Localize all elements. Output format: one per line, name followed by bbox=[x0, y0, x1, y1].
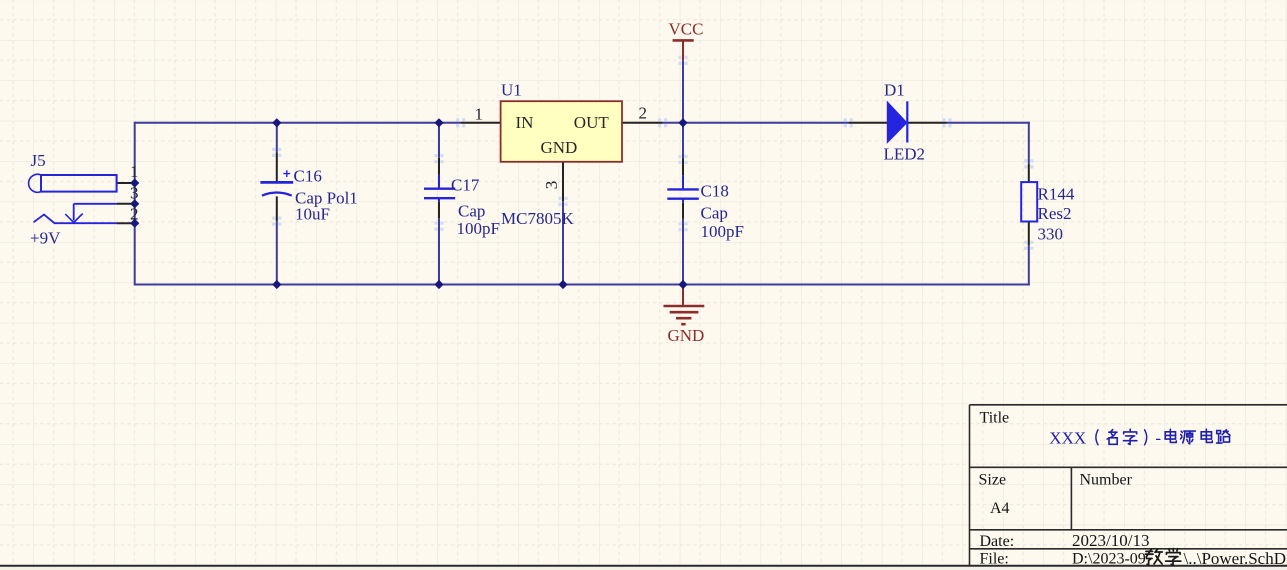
pin bottom of C17 bbox=[438, 198, 440, 202]
svg-text:A4: A4 bbox=[990, 500, 1010, 517]
wire top net to C16 bbox=[276, 123, 278, 153]
svg-text:XXX: XXX bbox=[1049, 429, 1086, 448]
svg-text:1: 1 bbox=[475, 105, 484, 124]
resistor R144 body bbox=[1021, 182, 1037, 221]
wire D1 to right corner bbox=[947, 122, 1030, 124]
diode D1 LED bbox=[887, 101, 907, 142]
svg-text:C18: C18 bbox=[701, 182, 729, 201]
svg-text:C17: C17 bbox=[451, 176, 480, 195]
svg-text:MC7805K: MC7805K bbox=[501, 209, 574, 228]
junction J5 pin1 bbox=[130, 178, 139, 187]
wire right vertical to R144 bbox=[1028, 122, 1030, 164]
wire R144 to bottom net bbox=[1028, 245, 1030, 285]
svg-text:3: 3 bbox=[542, 181, 561, 190]
junction U1 pin3 bottom bbox=[558, 280, 567, 289]
svg-text:OUT: OUT bbox=[574, 113, 610, 132]
svg-text:C16: C16 bbox=[294, 167, 322, 186]
pin bottom of R144 bbox=[1028, 222, 1030, 246]
svg-text:LED2: LED2 bbox=[884, 145, 926, 164]
pin 1 of J5 bbox=[117, 182, 135, 184]
power symbol VCC bbox=[673, 40, 694, 60]
ground symbol GND bbox=[664, 285, 705, 325]
wire node to C18 top bbox=[682, 123, 684, 159]
svg-text:GND: GND bbox=[541, 138, 578, 157]
junction J5 pin2 bbox=[130, 219, 139, 228]
title text XXX (name) power circuit bbox=[1049, 429, 1230, 448]
sheet bottom border bbox=[0, 567, 1287, 570]
svg-text:2: 2 bbox=[639, 104, 648, 123]
svg-text:Res2: Res2 bbox=[1038, 204, 1072, 223]
svg-text:Number: Number bbox=[1080, 472, 1133, 489]
pin bottom of C16 bbox=[276, 196, 278, 221]
svg-text:Cap: Cap bbox=[701, 204, 728, 223]
pin 1 of U1 bbox=[461, 122, 501, 124]
svg-text:Size: Size bbox=[979, 472, 1007, 489]
wire C17 bottom to ground net bbox=[438, 218, 440, 284]
svg-text:R144: R144 bbox=[1038, 185, 1075, 204]
svg-text:100pF: 100pF bbox=[701, 222, 744, 241]
title block value file path bbox=[1072, 549, 1286, 568]
pin cathode of D1 bbox=[907, 122, 947, 124]
wire J5 bus vertical bbox=[134, 122, 136, 286]
svg-text:J5: J5 bbox=[31, 151, 46, 170]
wire top net from J5 to U1 pin1 bbox=[135, 122, 461, 124]
svg-text:Date:: Date: bbox=[980, 533, 1015, 550]
junction C17 bottom bbox=[434, 280, 443, 289]
junction C16 bottom bbox=[272, 280, 281, 289]
pin 2 of J5 bbox=[117, 222, 135, 224]
connector J5 barrel body bbox=[29, 174, 117, 192]
wire bottom ground net bbox=[135, 284, 1030, 286]
capacitor C16 plates bbox=[260, 170, 293, 195]
svg-text:1: 1 bbox=[130, 162, 139, 181]
svg-text:File:: File: bbox=[980, 551, 1009, 568]
pin top of C18 bbox=[682, 159, 684, 176]
capacitor C17 plates bbox=[424, 189, 455, 199]
svg-text:10uF: 10uF bbox=[295, 205, 330, 224]
pin top of C16 bbox=[276, 152, 278, 182]
junction C16 top bbox=[272, 118, 281, 127]
svg-text:VCC: VCC bbox=[669, 19, 704, 38]
wire VCC stub to node bbox=[682, 60, 684, 123]
svg-text:Cap: Cap bbox=[458, 202, 485, 221]
pin anode of D1 bbox=[848, 122, 887, 124]
pin top of R144 bbox=[1028, 164, 1030, 182]
pin 3 of U1 bbox=[562, 162, 564, 202]
regulator U1 body bbox=[501, 101, 622, 162]
pin hotspot markers bbox=[272, 56, 1033, 250]
svg-text:U1: U1 bbox=[501, 81, 522, 100]
capacitor C18 plates bbox=[667, 189, 699, 198]
svg-text:-: - bbox=[1155, 429, 1161, 448]
title block frame bbox=[970, 405, 1287, 566]
junction C17 top bbox=[434, 118, 443, 127]
wire top net to C17 bbox=[438, 123, 440, 158]
svg-text:2023/10/13: 2023/10/13 bbox=[1072, 531, 1149, 550]
svg-text:+9V: +9V bbox=[30, 229, 61, 248]
junction VCC node bbox=[678, 118, 687, 127]
svg-text:D:\2023-09: D:\2023-09 bbox=[1072, 551, 1146, 568]
pin 3 of J5 bbox=[117, 203, 135, 205]
svg-text:D1: D1 bbox=[884, 81, 905, 100]
pin bottom of C18 bbox=[682, 199, 684, 203]
wire U1 pin2 to D1 bbox=[663, 122, 849, 124]
svg-text:330: 330 bbox=[1038, 225, 1064, 244]
pin 2 of U1 bbox=[622, 122, 663, 124]
wire C16 bottom to ground net bbox=[276, 221, 278, 284]
junction J5 pin3 bbox=[130, 199, 139, 208]
svg-text:GND: GND bbox=[668, 326, 705, 345]
J5 sleeve spring pin2 graphic bbox=[34, 215, 117, 224]
junction GND node bbox=[678, 280, 687, 289]
wire U1 pin3 to ground net bbox=[562, 201, 564, 284]
svg-text:IN: IN bbox=[516, 113, 534, 132]
pin top of C17 bbox=[438, 158, 440, 175]
svg-text:100pF: 100pF bbox=[457, 219, 500, 238]
J5 switch contact pin3 graphic bbox=[65, 204, 116, 223]
svg-text:Title: Title bbox=[980, 410, 1010, 427]
wire C18 bottom to ground net bbox=[682, 219, 684, 285]
svg-text:\..\Power.SchD: \..\Power.SchD bbox=[1184, 549, 1286, 568]
